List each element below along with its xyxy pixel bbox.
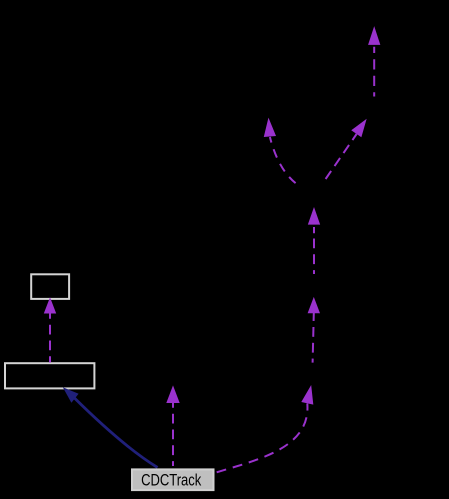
svg-text:CDCTrack: CDCTrack xyxy=(141,471,202,490)
